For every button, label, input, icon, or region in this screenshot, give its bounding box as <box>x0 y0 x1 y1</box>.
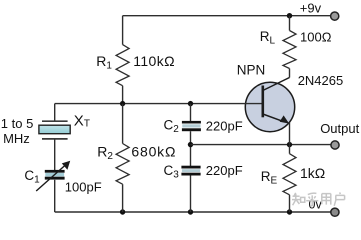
svg-text:+9v: +9v <box>300 1 322 16</box>
wire C2 to C3 <box>190 131 192 166</box>
transistor Q1 emitter lead <box>263 114 285 122</box>
wire C2 top stub <box>190 104 192 121</box>
capacitor C2 top plate <box>182 121 201 124</box>
transistor Q1 emitter arrow <box>280 115 290 123</box>
capacitor C3 dielectric <box>182 169 200 172</box>
terminal Output <box>331 141 339 149</box>
node junction base-R1 <box>120 101 125 106</box>
transistor Q1 base bar <box>261 86 264 118</box>
node junction bottom-C3 <box>188 209 193 214</box>
resistor RL <box>283 31 296 69</box>
svg-text:0v: 0v <box>309 198 323 212</box>
svg-text:110kΩ: 110kΩ <box>133 53 175 69</box>
arrow variable C1 <box>36 165 66 192</box>
wire C3 bottom stub <box>190 176 192 213</box>
svg-text:220pF: 220pF <box>206 118 243 133</box>
wire bottom rail (0v) <box>55 211 331 213</box>
transistor Q1 collector lead <box>263 78 290 91</box>
wire top rail (+9v) <box>123 15 331 17</box>
svg-text:100pF: 100pF <box>65 180 102 195</box>
wire R1 bottom stub <box>122 86 124 104</box>
svg-text:Output: Output <box>320 121 359 136</box>
wire RE top stub <box>289 145 291 154</box>
node junction mid-RE <box>287 142 292 147</box>
watermark <box>292 192 345 206</box>
svg-text:100Ω: 100Ω <box>300 29 332 44</box>
wire mid rail to output <box>191 144 331 146</box>
wire emitter to mid rail <box>289 123 291 145</box>
capacitor C2 bottom plate <box>182 128 201 131</box>
capacitor C1 bottom plate <box>45 177 65 180</box>
svg-text:1kΩ: 1kΩ <box>300 165 325 181</box>
node junction top-RL <box>287 13 292 18</box>
capacitor C1 top plate <box>45 170 65 173</box>
crystal XT bottom plate <box>42 138 68 140</box>
wire C1 to bottom rail <box>54 180 56 212</box>
svg-text:NPN: NPN <box>237 63 266 78</box>
svg-text:1 to 5: 1 to 5 <box>1 116 34 131</box>
wire RE bottom stub <box>289 195 291 212</box>
crystal XT top plate <box>42 120 68 122</box>
capacitor C3 bottom plate <box>181 173 200 176</box>
wire left branch top <box>54 104 56 122</box>
node junction base-C2 <box>188 101 193 106</box>
wire base rail <box>55 103 263 105</box>
wire crystal to C1 <box>54 140 56 171</box>
wire RL top stub <box>289 16 291 31</box>
capacitor C3 top plate <box>181 166 200 169</box>
terminal 0v <box>331 208 339 216</box>
svg-text:MHz: MHz <box>3 131 30 146</box>
svg-text:220pF: 220pF <box>206 163 243 178</box>
capacitor C1 dielectric <box>45 173 64 177</box>
capacitor C2 dielectric <box>182 124 200 127</box>
transistor Q1 body <box>245 82 294 131</box>
terminal +9v <box>331 12 339 20</box>
wire R2 bottom stub <box>122 184 124 212</box>
svg-text:680kΩ: 680kΩ <box>131 144 176 160</box>
node junction mid-C2C3 <box>188 142 193 147</box>
node junction bottom-RE <box>287 209 292 214</box>
crystal XT body <box>39 125 70 134</box>
svg-text:2N4265: 2N4265 <box>298 73 344 88</box>
resistor RE <box>283 154 296 195</box>
wire R1 top stub <box>122 16 124 45</box>
resistor R2 <box>116 144 129 185</box>
resistor R1 <box>116 45 129 86</box>
wire R2 top stub <box>122 104 124 144</box>
node junction bottom-R2 <box>120 209 125 214</box>
wire RL to collector <box>289 69 291 78</box>
